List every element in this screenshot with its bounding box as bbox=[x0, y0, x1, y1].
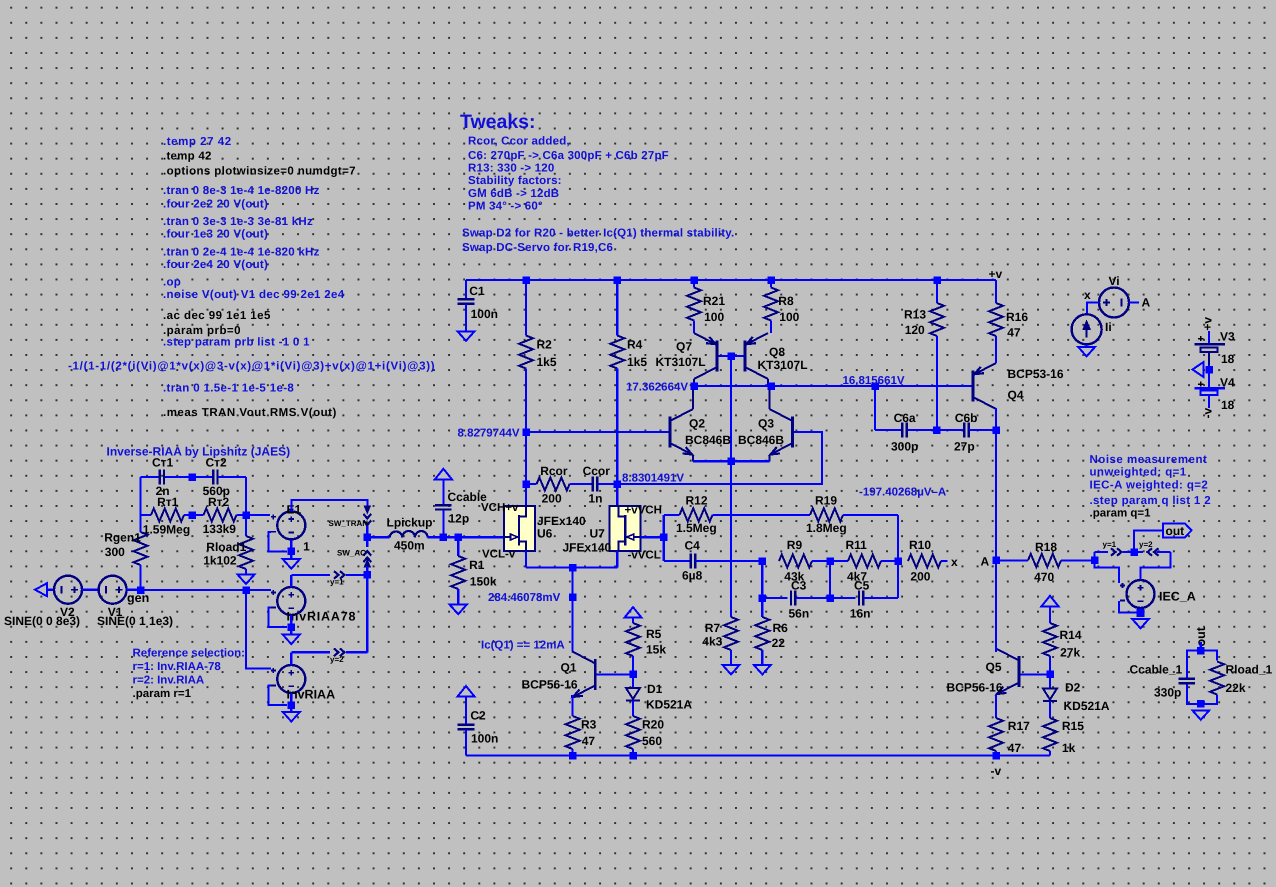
wire collector row bbox=[694, 385, 972, 387]
wire R9R11 junction down bbox=[829, 561, 831, 598]
svg-text:Ic(Q1) == 12mA: Ic(Q1) == 12mA bbox=[481, 640, 565, 652]
svg-text:SINE(0 1 1e3): SINE(0 1 1e3) bbox=[97, 614, 173, 628]
wire Vi right to A bbox=[1129, 301, 1139, 303]
svg-text:R13: 330 -> 120: R13: 330 -> 120 bbox=[468, 163, 554, 175]
wire C6 row bbox=[875, 429, 902, 431]
svg-text:SW_AC: SW_AC bbox=[337, 548, 366, 557]
label R17 bbox=[1008, 719, 1030, 733]
svg-text:150k: 150k bbox=[470, 574, 497, 588]
annotation 16.815661V bbox=[843, 375, 905, 387]
capacitor Ccable_1 bbox=[1130, 662, 1196, 699]
resistor R21 bbox=[687, 280, 701, 333]
node junction R2-Q2 base bbox=[522, 428, 530, 436]
label R1 bbox=[469, 558, 485, 572]
wire C1 corner bbox=[465, 280, 467, 299]
svg-text:1n: 1n bbox=[588, 492, 602, 506]
svg-text:.tran 0 8e-3 1e-4 1e-8200 Hz: .tran 0 8e-3 1e-4 1e-8200 Hz bbox=[163, 185, 320, 197]
node junction R2-Rcor-U6 bbox=[522, 480, 530, 488]
node junction RIAA output bbox=[242, 511, 250, 519]
comment Noise measurement bbox=[1090, 454, 1208, 466]
net flag above R5 bbox=[625, 607, 642, 618]
label R2 bbox=[537, 337, 553, 351]
svg-text:22k: 22k bbox=[1226, 681, 1246, 695]
svg-text:R6: R6 bbox=[773, 621, 789, 635]
label R3 bbox=[581, 718, 597, 732]
svg-text:18: 18 bbox=[1221, 352, 1235, 366]
wire Ct1/Ct2 top row bbox=[141, 477, 213, 515]
switch SW_AC bbox=[337, 537, 371, 566]
label Q7 bbox=[676, 340, 692, 354]
svg-text:15k: 15k bbox=[646, 643, 666, 657]
svg-text:C6b: C6b bbox=[955, 411, 978, 425]
label R7 bbox=[705, 621, 721, 635]
svg-text:BCP56-16: BCP56-16 bbox=[947, 681, 1003, 695]
label Q1 BCP56-16 bbox=[522, 678, 578, 692]
svg-text:300: 300 bbox=[105, 545, 125, 559]
node junction R1 input bbox=[454, 534, 462, 542]
resistor R8 bbox=[764, 280, 778, 333]
node junction input main bbox=[364, 534, 372, 542]
svg-text:Rgen1: Rgen1 bbox=[104, 530, 141, 544]
node junction tail bbox=[727, 458, 735, 466]
wire input node to Lpickup bbox=[367, 536, 389, 538]
label Q8 KT3107L bbox=[758, 358, 808, 372]
svg-text:.tran 0 3e-3 1e-3 3e-81 kHz: .tran 0 3e-3 1e-3 3e-81 kHz bbox=[163, 216, 313, 228]
node junction R13-C6 bbox=[933, 426, 941, 434]
wire rail corner to R16 bbox=[995, 280, 997, 296]
svg-text:Q7: Q7 bbox=[676, 340, 692, 354]
directive text '.tran 0 2e-4 1e-4 1e-820 kHz' bbox=[163, 246, 320, 258]
svg-text:Lpickup: Lpickup bbox=[387, 515, 433, 529]
svg-text:V4: V4 bbox=[1220, 375, 1235, 389]
JFET U6 JFEx140 bbox=[504, 506, 535, 551]
svg-text:470: 470 bbox=[1034, 570, 1054, 584]
label R6 bbox=[773, 621, 789, 635]
wire U7 gate to R12C4 bbox=[640, 536, 664, 538]
directive .param r=1 bbox=[133, 688, 192, 700]
capacitor Ccor bbox=[583, 464, 618, 506]
svg-text:56n: 56n bbox=[789, 606, 810, 620]
svg-text:1.8Meg: 1.8Meg bbox=[806, 521, 847, 535]
resistor R2 bbox=[519, 280, 533, 484]
label Rgen1 bbox=[104, 530, 141, 544]
svg-text:E1: E1 bbox=[287, 502, 302, 516]
resistor R5 bbox=[626, 618, 640, 675]
svg-text:PM 34° -> 60°: PM 34° -> 60° bbox=[468, 200, 543, 212]
svg-text:BCP53-16: BCP53-16 bbox=[1008, 367, 1064, 381]
comment text 'PM 34° -> 60°' bbox=[468, 200, 543, 212]
svg-text:+vVCH: +vVCH bbox=[625, 505, 662, 517]
comment text 'Swap DC-Servo for R19,C6' bbox=[462, 242, 613, 254]
svg-text:-v: -v bbox=[1201, 408, 1215, 419]
label Q8 bbox=[769, 345, 785, 359]
svg-text:Q3: Q3 bbox=[758, 416, 774, 430]
svg-text:r=1: Inv.RIAA-78: r=1: Inv.RIAA-78 bbox=[133, 661, 222, 673]
svg-text:Stability factors:: Stability factors: bbox=[468, 175, 562, 187]
annotation -197.40268uV-A bbox=[859, 486, 946, 498]
svg-text:A: A bbox=[981, 554, 990, 568]
svg-text:D1: D1 bbox=[647, 682, 663, 696]
svg-text:R4: R4 bbox=[627, 337, 643, 351]
label Rload1 bbox=[206, 540, 246, 554]
wire IEC_A output stub bbox=[1137, 609, 1145, 617]
svg-text:Q2: Q2 bbox=[689, 416, 705, 430]
label Q7 KT3107L bbox=[656, 355, 706, 369]
node junction C6a tap bbox=[871, 382, 879, 390]
resistor R1 bbox=[451, 537, 465, 604]
directive .param q=1 bbox=[1090, 508, 1152, 520]
node junction Q5 base bbox=[1046, 671, 1054, 679]
svg-text:VCL-v: VCL-v bbox=[482, 549, 516, 561]
svg-text:.four 2e4 20 V(out): .four 2e4 20 V(out) bbox=[163, 259, 268, 271]
svg-text:R3: R3 bbox=[581, 718, 597, 732]
node junction R4-Ccor-U7 bbox=[614, 480, 622, 488]
svg-text:GM 6dB -> 12dB: GM 6dB -> 12dB bbox=[468, 188, 559, 200]
comment IEC-A weighted: q=2 bbox=[1090, 479, 1209, 491]
annotation Ic(Q1) == 12mA bbox=[481, 640, 565, 652]
node junction gen-column bbox=[242, 586, 250, 594]
value R20 560 bbox=[642, 734, 662, 748]
svg-text:16n: 16n bbox=[850, 606, 871, 620]
resistor R4 bbox=[610, 280, 624, 484]
svg-text:Ccable_1: Ccable_1 bbox=[1130, 662, 1183, 676]
svg-text:Rcor: Rcor bbox=[540, 464, 568, 478]
wire U6 source bbox=[526, 551, 617, 568]
svg-text:.param q=1: .param q=1 bbox=[1090, 508, 1152, 520]
resistor R7 bbox=[724, 461, 738, 665]
capacitor C6b bbox=[937, 411, 997, 454]
svg-text:-1/(1-1/(2*(i(Vi)@1*v(x)@3-v(x: -1/(1-1/(2*(i(Vi)@1*v(x)@3-v(x)@1*i(Vi)@… bbox=[68, 361, 435, 373]
directive text '.four 2e4 20 V(out)' bbox=[163, 259, 268, 271]
ground Ii bbox=[1078, 344, 1095, 356]
svg-text:Rcor, Ccor added,: Rcor, Ccor added, bbox=[468, 136, 570, 148]
directive text '.temp 27 42' bbox=[163, 136, 232, 148]
svg-text:100n: 100n bbox=[471, 307, 498, 321]
svg-text:KD521A: KD521A bbox=[646, 698, 692, 712]
svg-text:.noise V(out) V1 dec 99 2e1 2e: .noise V(out) V1 dec 99 2e1 2e4 bbox=[163, 289, 345, 301]
directive text '.tran 0 1.5e-1 1e-5 1e-8' bbox=[163, 383, 294, 395]
ground IEC_A bbox=[1132, 619, 1149, 629]
svg-text:A: A bbox=[1142, 296, 1151, 310]
comment .step param q list 1 2 bbox=[1090, 495, 1211, 507]
svg-text:R10: R10 bbox=[909, 538, 931, 552]
svg-text:x: x bbox=[1084, 288, 1091, 302]
node junction Q7 collector bbox=[690, 382, 698, 390]
svg-text:VCH+v: VCH+v bbox=[481, 502, 519, 514]
svg-text:Vi: Vi bbox=[1109, 274, 1120, 288]
label R5 bbox=[646, 627, 662, 641]
capacitor Ct1 bbox=[152, 456, 174, 499]
svg-text:Ccor: Ccor bbox=[583, 464, 611, 478]
wire R18 node up bbox=[1095, 552, 1109, 560]
svg-text:1k: 1k bbox=[1062, 741, 1076, 755]
svg-text:R14: R14 bbox=[1060, 628, 1082, 642]
label Q1 bbox=[561, 661, 577, 675]
svg-text:1.59Meg: 1.59Meg bbox=[143, 522, 190, 536]
comment text 'Swap D2 for R20 - better Ic(Q1) thermal stability.' bbox=[462, 228, 734, 240]
wire Q1 base bbox=[597, 673, 633, 675]
node junction A bbox=[992, 557, 1000, 565]
wire Q7-Q8 base bbox=[719, 355, 744, 357]
directive text '.param prb=0' bbox=[163, 325, 241, 337]
svg-text:BC846B: BC846B bbox=[738, 433, 784, 447]
node junction rail-R13 bbox=[933, 276, 941, 284]
svg-text:560: 560 bbox=[642, 734, 662, 748]
svg-text:.param r=1: .param r=1 bbox=[133, 688, 192, 700]
svg-text:100: 100 bbox=[704, 310, 724, 324]
dependent source E1 bbox=[271, 502, 310, 553]
resistor Rload_1 bbox=[1210, 662, 1272, 696]
net flag 0V left arrow bbox=[1193, 362, 1204, 377]
directive text '.options plotwinsize=0 numdgt=7' bbox=[163, 166, 356, 178]
dependent source InvRIAA bbox=[271, 665, 335, 701]
current source Ii bbox=[1072, 314, 1102, 344]
svg-text:r=2: Inv.RIAA: r=2: Inv.RIAA bbox=[133, 675, 205, 687]
wire R9-R11 bbox=[812, 560, 848, 562]
svg-text:27p: 27p bbox=[954, 440, 975, 454]
node junction Q8 collector bbox=[767, 382, 775, 390]
svg-text:C6a: C6a bbox=[894, 411, 916, 425]
wire InvRIAA78 top bbox=[291, 575, 330, 587]
label U7 JFEx140 bbox=[563, 541, 612, 555]
label Q4 BCP53-16 bbox=[1008, 367, 1064, 381]
svg-text:.step param prb list -1 0 1: .step param prb list -1 0 1 bbox=[163, 337, 310, 349]
node junction Rt1-Rt2 bbox=[188, 511, 196, 519]
label R15 bbox=[1062, 719, 1084, 733]
node junction C4-R9-C3 bbox=[759, 557, 767, 565]
label Q5 BCP56-16 bbox=[947, 681, 1003, 695]
wire InvRIAA top bbox=[291, 652, 330, 665]
label U6 pin VCL-v bbox=[482, 549, 516, 561]
svg-text:y=1: y=1 bbox=[1103, 540, 1117, 549]
capacitor C1 bbox=[458, 284, 498, 331]
svg-text:-v: -v bbox=[991, 764, 1002, 778]
svg-text:IEC_A: IEC_A bbox=[1159, 589, 1196, 603]
svg-text:Swap DC-Servo for R19,C6: Swap DC-Servo for R19,C6 bbox=[462, 242, 613, 254]
svg-text:Rload1: Rload1 bbox=[206, 540, 246, 554]
node junction Q7Q8 base bbox=[727, 352, 735, 360]
capacitor C5 bbox=[850, 579, 898, 621]
svg-text:R17: R17 bbox=[1008, 719, 1030, 733]
svg-text:4k3: 4k3 bbox=[702, 634, 722, 648]
node junction rail-R3 bbox=[569, 752, 577, 760]
svg-text:100n: 100n bbox=[471, 732, 498, 746]
svg-text:6µ8: 6µ8 bbox=[682, 568, 703, 582]
value R3 47 bbox=[582, 734, 596, 748]
label R8 bbox=[778, 294, 794, 308]
svg-text:V3: V3 bbox=[1220, 329, 1235, 343]
wire Vi left to x bbox=[1087, 303, 1099, 315]
dependent source InvRIAA78 bbox=[271, 587, 356, 623]
comment heading Tweaks: bbox=[460, 111, 536, 133]
svg-text:.temp 42: .temp 42 bbox=[163, 151, 212, 163]
directive text '.tran 0 8e-3 1e-4 1e-8200 Hz' bbox=[163, 185, 320, 197]
svg-text:R13: R13 bbox=[904, 307, 926, 321]
svg-text:120: 120 bbox=[905, 323, 925, 337]
net label gen bbox=[127, 591, 149, 605]
svg-text:27k: 27k bbox=[1060, 646, 1080, 660]
wire U7 drain bbox=[616, 484, 618, 506]
value R8 100 bbox=[779, 310, 799, 324]
svg-text:R16: R16 bbox=[1006, 310, 1028, 324]
dependent source IEC_A bbox=[1120, 580, 1196, 608]
wire y1-center bbox=[1123, 551, 1134, 553]
switch y=1 left bbox=[330, 571, 345, 586]
wire vertical y1-y2 bbox=[366, 575, 368, 652]
value R4 1k5 bbox=[627, 355, 647, 369]
net label A at Vi bbox=[1142, 296, 1151, 310]
wire R18node to IEC_A plus bbox=[1095, 560, 1119, 583]
directive text '.ac dec 99 1e1 1e5' bbox=[163, 310, 271, 322]
node junction rail-R21 bbox=[690, 276, 698, 284]
value R16 47 bbox=[1007, 325, 1021, 339]
wire V1 to gen node bbox=[127, 589, 141, 591]
node junction rail-R17 -v bbox=[992, 752, 1000, 760]
transistor Q2 BC846B bbox=[670, 390, 693, 462]
wire IEC_A minus loop bbox=[1119, 601, 1137, 612]
svg-text:Reference selection:: Reference selection: bbox=[133, 647, 246, 659]
svg-text:.op: .op bbox=[163, 276, 181, 288]
resistor R3 bbox=[566, 695, 580, 756]
ground C1 bbox=[458, 331, 475, 341]
svg-text:1k5: 1k5 bbox=[537, 355, 557, 369]
svg-text:C3: C3 bbox=[791, 579, 807, 593]
value R1 150k bbox=[470, 574, 497, 588]
svg-text:-197.40268µV–A: -197.40268µV–A bbox=[859, 486, 946, 498]
inductor Lpickup bbox=[387, 515, 433, 552]
wire Q2Q3 emitter tail bbox=[693, 460, 770, 462]
wire -v bottom rail bbox=[466, 754, 1050, 756]
node marker 284mV bbox=[569, 593, 577, 601]
svg-text:C5: C5 bbox=[854, 579, 870, 593]
label Vi bbox=[1109, 274, 1120, 288]
wire C3-C5 bbox=[796, 597, 856, 599]
label U7 pin +vVCH bbox=[625, 505, 662, 517]
comment text 'GM 6dB -> 12dB' bbox=[468, 188, 559, 200]
capacitor Ct2 bbox=[203, 456, 246, 499]
svg-text:R11: R11 bbox=[846, 538, 868, 552]
resistor Rgen1 bbox=[134, 515, 148, 590]
node junction rail-R2 bbox=[522, 276, 530, 284]
value R21 100 bbox=[704, 310, 724, 324]
wire E1 top to SW_TRAN bbox=[291, 500, 367, 511]
svg-text:1k5: 1k5 bbox=[627, 355, 647, 369]
value R15 1k bbox=[1062, 741, 1076, 755]
directive text '.step param prb list -1 0 1' bbox=[163, 337, 310, 349]
svg-text:R20: R20 bbox=[642, 718, 664, 732]
wire R19 corner down bbox=[897, 515, 899, 598]
node junction switch center bbox=[1130, 548, 1138, 556]
svg-text:y=2: y=2 bbox=[1139, 540, 1153, 549]
label Q2 BC846B bbox=[685, 433, 731, 447]
svg-text:284.46078mV: 284.46078mV bbox=[488, 592, 561, 604]
svg-text:KD521A: KD521A bbox=[1064, 699, 1110, 713]
label R16 bbox=[1006, 310, 1028, 324]
switch y=1 right bbox=[1103, 540, 1122, 556]
wire SW_TRAN to input node bbox=[366, 526, 368, 538]
svg-text:17.362664V: 17.362664V bbox=[626, 381, 688, 393]
svg-text:Q4: Q4 bbox=[1008, 388, 1024, 402]
resistor Rload1 bbox=[239, 515, 253, 575]
ground Rload_1 bbox=[1192, 710, 1209, 720]
net label x at R10 bbox=[951, 555, 958, 569]
svg-text:y=2: y=2 bbox=[330, 655, 344, 664]
svg-text:KT3107L: KT3107L bbox=[758, 358, 808, 372]
net label A bbox=[981, 554, 990, 568]
resistor R17 bbox=[989, 695, 1003, 756]
transistor Q1 BCP56-16 bbox=[572, 651, 595, 697]
svg-text:Cт1: Cт1 bbox=[152, 456, 174, 470]
svg-text:BCP56-16: BCP56-16 bbox=[522, 678, 578, 692]
battery V4 bbox=[1195, 365, 1236, 412]
value Rgen1 300 bbox=[105, 545, 125, 559]
svg-text:1k102: 1k102 bbox=[203, 553, 237, 567]
net flag +v rotated bbox=[1201, 317, 1215, 331]
wire out stub bbox=[1200, 642, 1202, 651]
node junction V3-V4 bbox=[1205, 366, 1213, 374]
resistor R10 bbox=[908, 538, 948, 583]
node junction rail-R8 bbox=[767, 276, 775, 284]
svg-text:.four 1e3 20 V(out): .four 1e3 20 V(out) bbox=[163, 229, 268, 241]
ground InvRIAA bbox=[283, 705, 300, 722]
diode D1 KD521A bbox=[626, 674, 692, 716]
net label x at Vi bbox=[1084, 288, 1091, 302]
svg-text:300p: 300p bbox=[891, 440, 918, 454]
svg-text:R8: R8 bbox=[778, 294, 794, 308]
comment text 'C6: 270pF -> C6a 300pF + C6b 27pF' bbox=[468, 150, 669, 162]
label U7 pin -vVCL bbox=[628, 550, 661, 562]
annotation 17.362664V bbox=[626, 381, 688, 393]
svg-text:y=1: y=1 bbox=[330, 578, 344, 587]
value R2 1k5 bbox=[537, 355, 557, 369]
wire C6a tap down bbox=[874, 386, 876, 430]
svg-text:100: 100 bbox=[779, 310, 799, 324]
svg-text:Q1: Q1 bbox=[561, 661, 577, 675]
label Q2 bbox=[689, 416, 705, 430]
svg-text:.four 2e2 20 V(out): .four 2e2 20 V(out) bbox=[163, 199, 268, 211]
svg-text:Inverse-RIAA by Lipshitz (JAES: Inverse-RIAA by Lipshitz (JAES) bbox=[107, 445, 291, 459]
svg-text:IEC-A weighted: q=2: IEC-A weighted: q=2 bbox=[1090, 479, 1209, 491]
wire InvRIAA78 minus loop bbox=[269, 608, 287, 628]
svg-text:133k9: 133k9 bbox=[203, 522, 237, 536]
resistor R6 bbox=[755, 598, 769, 665]
wire C3 row bbox=[762, 561, 787, 598]
node junction gen-Rgen1 bbox=[137, 586, 145, 594]
wire U7 source bbox=[616, 551, 618, 568]
svg-text:-vVCL: -vVCL bbox=[628, 550, 661, 562]
svg-text:R5: R5 bbox=[646, 627, 662, 641]
svg-text:+v: +v bbox=[1201, 317, 1215, 331]
wire InvRIAA output stub bbox=[288, 693, 296, 709]
svg-text:Rт2: Rт2 bbox=[208, 495, 230, 509]
wire +v top rail bbox=[466, 279, 996, 281]
wire Q2 base bbox=[526, 431, 669, 433]
annotation 8.8279744V bbox=[458, 427, 520, 439]
svg-text:D2: D2 bbox=[1065, 681, 1081, 695]
wire RIAA out to E1+ bbox=[246, 514, 270, 516]
svg-text:R18: R18 bbox=[1035, 540, 1057, 554]
wire U6 drain bbox=[525, 484, 527, 506]
transistor Q7 KT3107L bbox=[694, 333, 717, 386]
wire gen column down to InvRIAA+ bbox=[246, 590, 271, 669]
resistor R9 bbox=[779, 538, 812, 583]
net flag above R14 bbox=[1042, 596, 1059, 607]
annotation 284.46078mV bbox=[488, 592, 561, 604]
svg-text:.options plotwinsize=0 numdgt=: .options plotwinsize=0 numdgt=7 bbox=[163, 166, 356, 178]
wire gate node vertical bbox=[663, 515, 665, 561]
label U7 bbox=[590, 527, 606, 541]
svg-text:C1: C1 bbox=[469, 284, 485, 298]
